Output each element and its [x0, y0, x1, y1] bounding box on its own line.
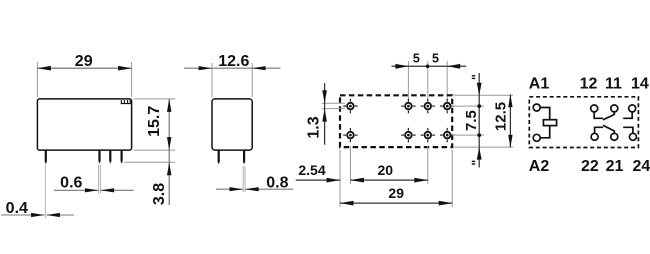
svg-text:24: 24 — [633, 158, 650, 175]
svg-text:A1: A1 — [529, 76, 550, 93]
svg-text:12: 12 — [580, 76, 598, 93]
svg-text:0.4: 0.4 — [6, 200, 28, 217]
svg-text:7.5: 7.5 — [463, 110, 480, 131]
svg-text:22: 22 — [581, 158, 599, 175]
svg-text:3.8: 3.8 — [151, 183, 168, 205]
svg-text:0.6: 0.6 — [60, 175, 82, 192]
svg-text:14: 14 — [631, 76, 649, 93]
svg-text:15.7: 15.7 — [146, 106, 163, 137]
svg-text:1.3: 1.3 — [306, 116, 323, 138]
svg-text:29: 29 — [75, 53, 93, 70]
svg-text:A2: A2 — [529, 158, 550, 175]
svg-text:5: 5 — [413, 52, 420, 66]
svg-text:12.5: 12.5 — [492, 102, 509, 131]
svg-text:2.54: 2.54 — [298, 162, 325, 178]
svg-text:20: 20 — [378, 162, 394, 178]
svg-text:0.8: 0.8 — [266, 174, 288, 191]
svg-text:12.6: 12.6 — [218, 53, 249, 70]
svg-text:5: 5 — [432, 52, 439, 66]
svg-text:11: 11 — [605, 76, 622, 93]
svg-text:29: 29 — [388, 185, 404, 201]
svg-text:21: 21 — [606, 158, 624, 175]
